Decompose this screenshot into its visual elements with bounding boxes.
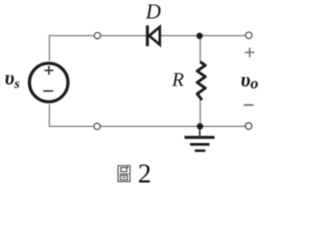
svg-text:D: D — [145, 0, 161, 23]
svg-text:2: 2 — [138, 159, 152, 189]
svg-text:R: R — [171, 70, 184, 91]
svg-text:υo: υo — [241, 70, 259, 93]
svg-text:υs: υs — [5, 68, 21, 92]
